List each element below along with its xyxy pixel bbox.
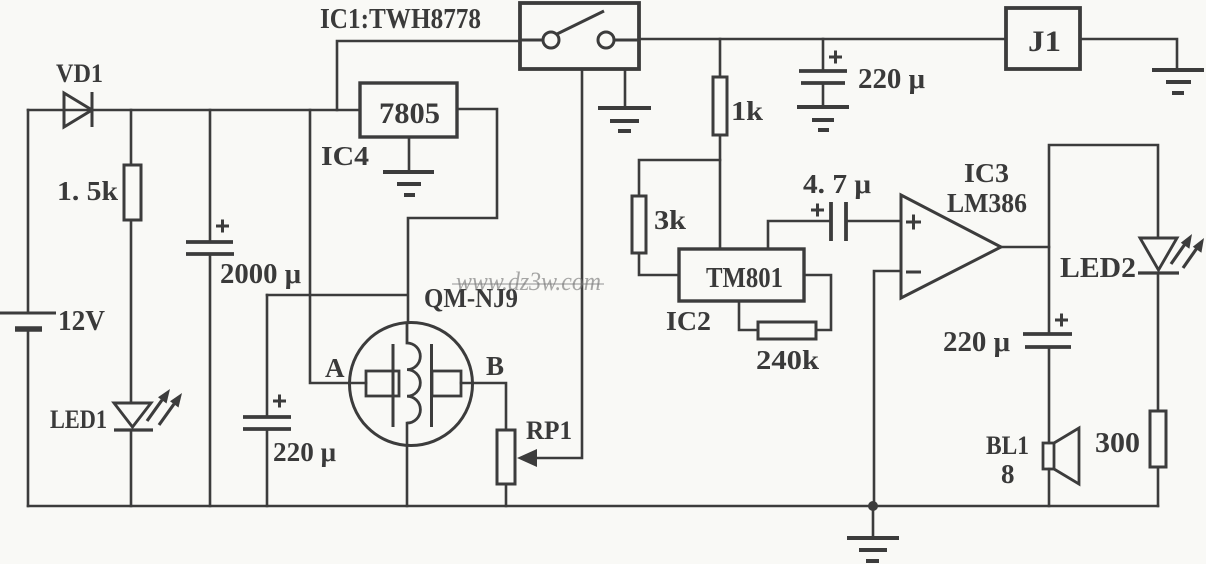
svg-text:IC2: IC2 (666, 306, 711, 336)
svg-text:220 μ: 220 μ (858, 64, 925, 95)
svg-text:4. 7 μ: 4. 7 μ (803, 169, 871, 199)
svg-text:BL1: BL1 (986, 431, 1029, 460)
svg-text:300: 300 (1095, 428, 1140, 459)
svg-text:LED2: LED2 (1060, 253, 1136, 284)
svg-text:J1: J1 (1028, 25, 1061, 58)
svg-text:IC3: IC3 (964, 158, 1009, 188)
svg-text:1. 5k: 1. 5k (57, 176, 118, 206)
svg-text:VD1: VD1 (56, 59, 103, 88)
svg-text:LM386: LM386 (947, 188, 1027, 218)
svg-text:8: 8 (1001, 459, 1015, 489)
svg-text:3k: 3k (654, 205, 686, 235)
svg-text:LED1: LED1 (50, 405, 107, 434)
svg-text:220 μ: 220 μ (273, 437, 336, 467)
svg-text:220 μ: 220 μ (943, 327, 1010, 358)
svg-text:A: A (325, 353, 345, 383)
svg-text:240k: 240k (756, 345, 819, 375)
svg-text:RP1: RP1 (526, 416, 572, 445)
svg-text:1k: 1k (731, 96, 763, 126)
svg-text:IC4: IC4 (321, 141, 369, 171)
svg-text:B: B (486, 351, 504, 381)
svg-text:TM801: TM801 (706, 262, 783, 294)
svg-text:IC1:TWH8778: IC1:TWH8778 (320, 4, 481, 35)
svg-text:12V: 12V (58, 306, 105, 337)
svg-text:2000 μ: 2000 μ (220, 259, 301, 290)
svg-text:7805: 7805 (379, 97, 440, 130)
svg-text:www.dz3w.com: www.dz3w.com (456, 267, 601, 296)
